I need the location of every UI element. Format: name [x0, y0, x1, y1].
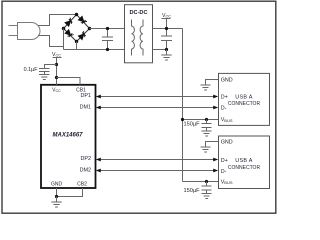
wire DP2 data line	[96, 158, 218, 162]
wire AC neutral: plug to bridge left	[38, 36, 64, 47]
wire DP1 data line	[96, 95, 218, 99]
diode D1 (left-top)	[65, 18, 74, 27]
capacitor C1 (bulk input cap)	[102, 29, 113, 50]
border frame	[2, 1, 276, 213]
USB connector J1 box	[219, 73, 270, 125]
svg-text:GND: GND	[221, 77, 233, 83]
wire CB1 jog	[57, 78, 81, 85]
svg-text:D-: D-	[221, 169, 227, 175]
ground at J2 GND pin	[201, 142, 219, 153]
USB connector J2 box	[219, 136, 270, 189]
svg-text:DP1: DP1	[81, 93, 92, 99]
wire CB2 pin down and over	[57, 188, 83, 197]
junction cap C3 top	[205, 118, 208, 121]
svg-text:150µF: 150µF	[184, 122, 201, 128]
svg-text:CB2: CB2	[77, 181, 87, 187]
wire DC-DC out+ to Vcc node	[153, 28, 183, 30]
node top of bridge	[75, 13, 78, 16]
svg-text:DM1: DM1	[80, 104, 91, 110]
wire Vbus rail vertical	[182, 29, 184, 182]
IC U1 MAX14667 box	[41, 85, 96, 188]
svg-text:MAX14667: MAX14667	[52, 132, 83, 138]
node right of bridge	[88, 27, 91, 30]
wire DM2 data line	[96, 169, 218, 173]
junction C1 bottom	[106, 48, 109, 51]
junction Vcc/bypass cap	[55, 63, 58, 66]
svg-text:USB A: USB A	[235, 158, 252, 164]
svg-text:VCC: VCC	[52, 87, 61, 93]
svg-text:D+: D+	[221, 158, 228, 164]
diode D4 (bottom-right)	[78, 31, 87, 40]
wire bridge left node down to ground rail	[63, 29, 65, 50]
svg-text:VBUS: VBUS	[221, 117, 233, 123]
capacitor C2 (output cap)	[161, 29, 172, 50]
transformer T1 primary winding	[132, 20, 135, 56]
DC-DC converter module box	[125, 5, 153, 63]
diode bridge D1-D4 frame	[64, 15, 90, 42]
svg-text:DM2: DM2	[80, 167, 91, 173]
wire Vbus to connector 2	[183, 181, 219, 183]
svg-text:DP2: DP2	[81, 156, 92, 162]
capacitor C5 0.1uF	[39, 65, 57, 80]
svg-text:D+: D+	[221, 94, 228, 100]
svg-text:0.1µF: 0.1µF	[24, 67, 39, 73]
wire IC GND pin down	[56, 188, 58, 197]
ground below C2	[161, 50, 171, 61]
diode D3 (left-bottom)	[65, 30, 74, 39]
node bottom of bridge	[75, 40, 78, 43]
wire Vbus to connector 1	[183, 119, 219, 121]
ground at J1 GND pin	[201, 80, 219, 91]
junction GND/CB2	[55, 195, 58, 198]
capacitor C3 150uF	[202, 120, 212, 137]
wire DC+ rail bridge right to DC-DC	[90, 28, 125, 30]
diode D2 (top-right)	[78, 16, 87, 25]
svg-text:CONNECTOR: CONNECTOR	[228, 101, 261, 107]
svg-text:VBUS: VBUS	[221, 179, 233, 185]
junction Vcc/CB1	[55, 76, 58, 79]
junction C1 top	[106, 27, 109, 30]
wire DC-DC out- to ground node	[153, 49, 167, 51]
svg-text:150µF: 150µF	[184, 188, 201, 194]
svg-text:USB A: USB A	[235, 94, 252, 100]
wire DM1 data line	[96, 106, 218, 110]
svg-text:D-: D-	[221, 106, 227, 112]
AC plug P1	[9, 23, 40, 40]
svg-text:DC-DC: DC-DC	[129, 10, 147, 16]
wire AC hot: plug to bridge top	[38, 15, 77, 26]
wire bridge bottom node down	[76, 42, 78, 50]
junction C2 bottom	[165, 48, 168, 51]
junction C2 top	[165, 27, 168, 30]
svg-text:CONNECTOR: CONNECTOR	[228, 165, 261, 171]
transformer T1 secondary winding	[140, 20, 143, 56]
capacitor C4 150uF	[202, 182, 212, 199]
wire ground rail to DC-DC	[64, 49, 125, 51]
node left of bridge	[62, 27, 65, 30]
svg-text:GND: GND	[51, 181, 63, 187]
junction cap C4 top	[205, 180, 208, 183]
svg-text:GND: GND	[221, 140, 233, 146]
ground below IC	[51, 197, 61, 208]
junction Vbus rail / connector 1	[181, 118, 184, 121]
